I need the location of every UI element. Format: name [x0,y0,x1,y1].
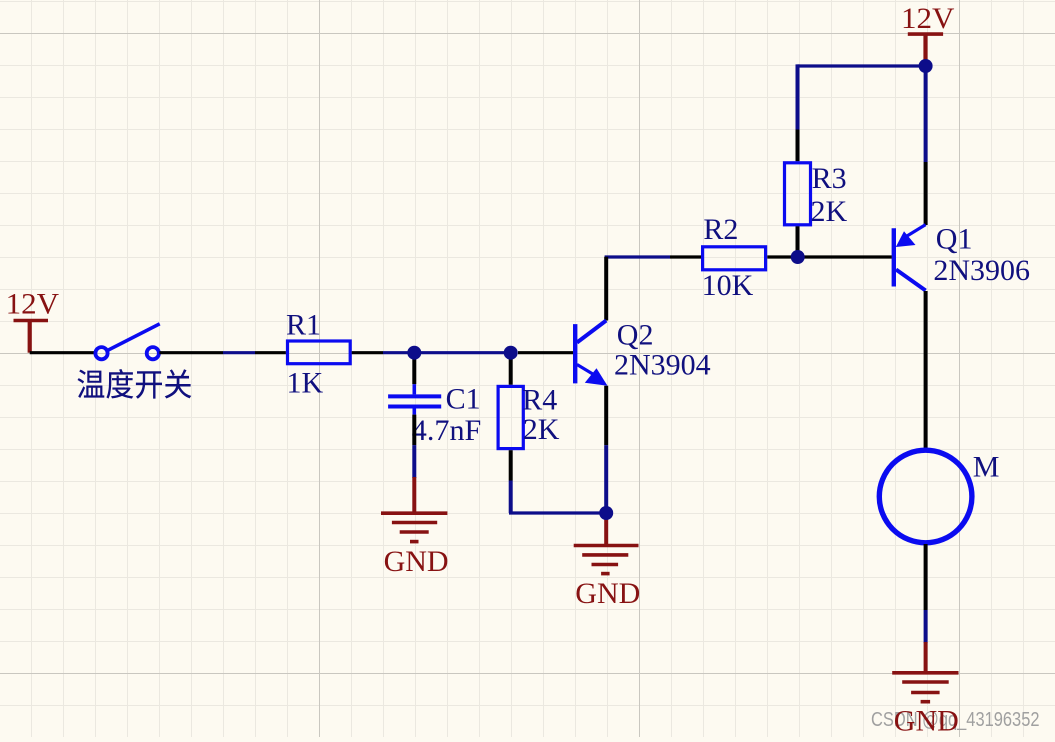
wire R1 right black [352,351,383,354]
power symbol 12V left [6,287,60,352]
wire motor bottom black [924,544,928,610]
svg-text:12V: 12V [6,287,60,320]
wire switch to R1 black [159,351,223,354]
svg-text:10K: 10K [702,269,754,302]
wire navy to junction [383,351,414,354]
svg-text:R4: R4 [522,383,557,416]
node junction R3 R2 Q1 [791,250,805,264]
motor M [879,450,999,543]
wire C1 top black [412,353,416,385]
wire top rail navy [798,64,926,67]
wire Q1 collector black down to motor [924,291,928,449]
wire R4 bottom navy corner [509,481,513,514]
svg-text:M: M [973,451,1000,484]
wire navy junction to junction [414,351,510,354]
wire Q1 base black [798,255,892,258]
wire R4 bottom black [509,450,513,480]
switch 温度开关 [95,324,159,360]
wire R3 branch upper navy [796,64,800,129]
wire motor bottom navy [924,610,928,643]
transistor Q1 [894,223,1030,291]
svg-text:Q1: Q1 [936,223,973,256]
transistor Q2 [575,319,710,386]
svg-text:4.7nF: 4.7nF [412,414,482,447]
wire R2 left black [670,255,701,258]
svg-text:1K: 1K [287,366,324,399]
resistor R4 [498,383,560,448]
resistor R1 [286,309,350,400]
wire R2 right black [767,255,797,258]
wire Q2 emitter navy [604,445,608,513]
wire R2 left navy [605,255,670,258]
resistor R2 [702,213,766,302]
node junction top [919,59,933,73]
svg-text:2K: 2K [523,413,560,446]
wire segment navy [223,351,255,354]
svg-text:2K: 2K [811,195,848,228]
label 温度开关 [78,369,192,399]
wire to R1 black [255,351,286,354]
wire right vertical navy upper [924,66,928,162]
svg-text:R3: R3 [812,162,847,195]
svg-text:GND: GND [894,705,959,738]
wire Q2 base black [518,351,573,354]
svg-text:12V: 12V [901,2,955,35]
wire C1 bottom navy [412,445,416,478]
wire R4 top black [509,353,513,385]
wire C1 bottom black [412,415,416,446]
svg-text:GND: GND [384,545,449,578]
wire Q2 emitter black [604,386,608,445]
node junction R4 [504,346,518,360]
node junction GND mid [599,506,613,520]
svg-text:2N3904: 2N3904 [614,348,711,381]
ground GND left [381,477,449,578]
svg-text:R1: R1 [286,309,321,342]
ground GND mid [574,513,641,610]
svg-text:R2: R2 [703,213,738,246]
svg-text:C1: C1 [446,382,481,415]
wire from 12V to switch black [30,351,95,354]
resistor R3 [785,162,848,228]
wire R3 branch black [796,130,800,162]
wire right vertical black to Q1 emitter [924,162,928,225]
svg-text:GND: GND [575,577,640,610]
capacitor C1 [388,382,481,447]
svg-text:2N3906: 2N3906 [933,254,1030,287]
power symbol 12V top [901,2,955,62]
ground GND bottom [892,642,959,738]
svg-text:Q2: Q2 [617,319,654,352]
node junction C1 [407,346,421,360]
wire R3 bottom black [796,226,800,257]
wire Q2 collector vertical black [604,257,608,321]
